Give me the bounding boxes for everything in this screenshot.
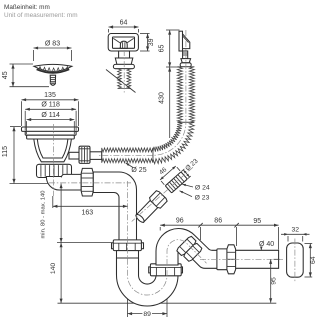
extension line 89 left (127, 296, 129, 317)
extension line 89 right (166, 296, 168, 317)
svg-text:135: 135 (44, 92, 56, 99)
center line overflow front hose (123, 50, 125, 93)
strainer flange disc 135 (22, 127, 79, 131)
overflow side stem (183, 51, 188, 59)
center line 45 deg branch (132, 167, 193, 221)
wall flange rosette (287, 243, 304, 277)
overflow front funnel cup (115, 58, 133, 64)
svg-text:min. 80 - max. 140: min. 80 - max. 140 (41, 190, 47, 238)
center line strainer axis (52, 124, 54, 196)
dim 64 flange height (309, 244, 311, 278)
svg-text:Ø 25: Ø 25 (131, 167, 146, 174)
dim 32 flange depth (281, 233, 310, 235)
dim 65 hose top (169, 30, 171, 67)
svg-text:96: 96 (176, 218, 184, 225)
corrugated connector piece 46mm at 45deg (165, 172, 187, 193)
dim min 80 max 140 (60, 184, 62, 243)
dim 115 strainer height (13, 127, 15, 184)
svg-text:Unit of measurement: mm: Unit of measurement: mm (4, 12, 78, 19)
strainer plug slots (39, 67, 41, 70)
dim 95 outlet height (270, 259, 272, 303)
overflow inlet spigot (69, 152, 80, 159)
dim O118 (25, 108, 76, 110)
strainer plug dish (34, 64, 72, 71)
svg-text:95: 95 (253, 218, 261, 225)
center line overflow side hose (98, 30, 186, 155)
overflow knob front (120, 41, 127, 48)
U bend tube (117, 258, 179, 306)
svg-text:65: 65 (159, 45, 166, 53)
dim 46 connector length (155, 160, 180, 185)
overflow cover side wedge (183, 34, 190, 49)
extension line at trap nut level (57, 242, 111, 244)
svg-text:430: 430 (159, 92, 166, 104)
dim chain 96 86 95 (160, 224, 278, 226)
U bend right leg nut pair (149, 267, 152, 273)
extension line bottom reference (trap lowest level) (58, 302, 277, 304)
overflow hose vertical corrugated (177, 67, 194, 123)
svg-text:Ø 23: Ø 23 (195, 194, 210, 201)
strainer funnel body (34, 139, 72, 162)
dim 140 trap depth (60, 243, 62, 304)
svg-text:163: 163 (81, 209, 93, 216)
overflow front hose break line (106, 70, 136, 93)
extension line at outlet pipe axis level (10, 183, 67, 185)
overflow hose horizontal corrugated (102, 148, 153, 163)
center line wall flange (294, 239, 296, 282)
svg-text:140: 140 (50, 263, 57, 275)
slip nut on outlet pipe (81, 168, 93, 196)
svg-text:Ø 118: Ø 118 (41, 102, 60, 109)
center line outlet pipe horizontal (49, 182, 131, 184)
svg-text:32: 32 (292, 227, 300, 234)
svg-text:39: 39 (148, 38, 155, 46)
strainer flange step 118 (25, 131, 76, 135)
trap adjusting nut pair (112, 243, 115, 249)
svg-text:Maßeinheit: mm: Maßeinheit: mm (4, 4, 50, 11)
label O25 with leader (126, 163, 133, 168)
outlet big nut (227, 245, 236, 274)
overflow cover front view inner frame (113, 37, 135, 48)
svg-text:64: 64 (120, 19, 128, 26)
dim 45 plug height (12, 64, 14, 87)
overflow inlet nut on funnel (79, 146, 90, 163)
strainer plug stem (50, 75, 55, 85)
dim 430 hose length (169, 67, 171, 138)
svg-text:89: 89 (143, 311, 151, 318)
overflow cover diagonals (113, 38, 127, 47)
dim O83 of plug (34, 47, 72, 49)
overflow cover side view plate (179, 31, 183, 51)
strainer flange step 114 (27, 135, 75, 139)
dim 89 trap width (128, 313, 168, 315)
spigot with nut at 45deg (133, 190, 168, 225)
trap outlet over-bend and diagonal to horizontal pipe (156, 229, 279, 269)
svg-text:Ø 24: Ø 24 (195, 185, 210, 192)
strainer big nut (37, 164, 72, 177)
svg-text:95: 95 (271, 277, 278, 285)
diagonal nut pair on outlet (176, 235, 203, 262)
strainer tailpipe and elbow (46, 174, 81, 190)
trap inlet socket pipe (117, 251, 139, 275)
svg-text:Ø 114: Ø 114 (41, 112, 60, 119)
outlet union ring (217, 249, 228, 270)
overflow hose bend corrugated (153, 122, 195, 164)
overflow front stem (119, 51, 130, 58)
svg-text:115: 115 (2, 146, 9, 157)
svg-text:45: 45 (2, 71, 9, 79)
label O23 with leader (180, 191, 193, 197)
dim O23 connector end (180, 157, 202, 178)
overflow front hose stub corrugated (118, 69, 131, 89)
dim 39 overflow height (147, 34, 149, 52)
dim 163 (53, 205, 128, 207)
overflow cover front view outer (108, 34, 138, 52)
strainer plug rim band (bold) (37, 69, 70, 73)
svg-text:Ø 83: Ø 83 (45, 40, 60, 47)
overflow side funnel (181, 59, 191, 63)
dim 135 flange (22, 99, 79, 101)
dim 64 overflow width (109, 26, 139, 28)
center line trap run (128, 181, 284, 295)
dim O114 (27, 119, 75, 121)
label O24 with leader (182, 184, 193, 187)
svg-text:64: 64 (310, 256, 317, 264)
svg-text:86: 86 (214, 218, 222, 225)
outlet horizontal pipe and elbow down (93, 172, 136, 252)
overflow inlet pipe (90, 152, 102, 160)
